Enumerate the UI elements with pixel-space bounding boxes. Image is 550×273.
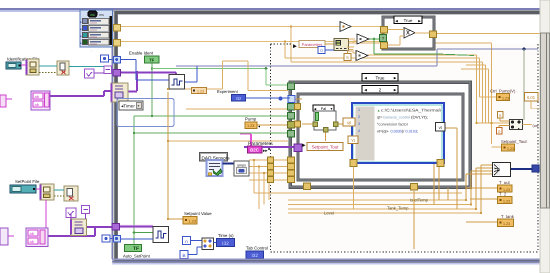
svg-text:1.23: 1.23	[247, 124, 254, 128]
svg-text:1.23: 1.23	[502, 96, 509, 100]
svg-text:SetPoint File: SetPoint File	[15, 179, 40, 184]
svg-text:TF: TF	[133, 246, 139, 252]
svg-text:B: B	[182, 253, 185, 258]
svg-text:▲: ▲	[377, 109, 380, 113]
svg-text:T_out: T_out	[499, 180, 511, 185]
svg-text:ms: ms	[90, 13, 95, 17]
svg-text:◀: ◀	[395, 19, 398, 23]
svg-text:IsletTemp: IsletTemp	[410, 198, 429, 203]
svg-text:Enable Ident: Enable Ident	[129, 51, 154, 56]
svg-text:♡: ♡	[90, 49, 93, 53]
svg-text:▶: ▶	[302, 143, 306, 148]
svg-text:Tank_Temp: Tank_Temp	[387, 206, 409, 211]
svg-text:1.23: 1.23	[503, 199, 510, 203]
svg-text:Fal: Fal	[321, 107, 326, 111]
svg-text:(DVt,Yt);: (DVt,Yt);	[411, 116, 428, 120]
svg-text:T_tank: T_tank	[501, 214, 515, 219]
svg-text:◂Timer: ◂Timer	[121, 104, 135, 109]
svg-text:0.3103: 0.3103	[406, 130, 418, 134]
svg-text:amps: amps	[237, 163, 246, 167]
svg-text:Setpoint Value: Setpoint Value	[184, 211, 212, 216]
svg-text:I32: I32	[222, 241, 229, 247]
svg-text:ab: ab	[35, 102, 40, 107]
svg-text:▶: ▶	[293, 44, 297, 50]
svg-text:ms: ms	[99, 13, 104, 17]
svg-text:B2C: B2C	[250, 148, 260, 153]
svg-text:Setpoint_Tout: Setpoint_Tout	[312, 145, 340, 150]
svg-text:4: 4	[358, 129, 360, 133]
svg-text:0,01: 0,01	[527, 95, 536, 100]
svg-text:▶: ▶	[418, 19, 421, 23]
svg-text:1.23: 1.23	[197, 89, 204, 93]
svg-text:Ctrl_Pump(V): Ctrl_Pump(V)	[490, 89, 516, 94]
svg-text:▶: ▶	[394, 88, 397, 92]
svg-text:▾: ▾	[138, 104, 140, 108]
svg-text:*conversion factor: *conversion factor	[377, 123, 409, 127]
svg-text:1.23: 1.23	[189, 220, 196, 224]
svg-text:▸: ▸	[518, 127, 520, 131]
svg-text:True: True	[404, 18, 413, 23]
svg-text:Auto_SetPoint: Auto_SetPoint	[123, 253, 151, 258]
svg-text:1.23: 1.23	[503, 222, 510, 226]
svg-text:Level: Level	[324, 211, 334, 216]
svg-text:True: True	[375, 75, 385, 80]
svg-text:Experiment: Experiment	[217, 89, 239, 94]
svg-text:ab: ab	[30, 231, 35, 236]
svg-text:vt=(qt+: vt=(qt+	[377, 130, 390, 134]
svg-text:ab: ab	[35, 94, 40, 99]
svg-text:Tab Control: Tab Control	[246, 246, 268, 251]
svg-text:I32: I32	[252, 253, 259, 258]
svg-text:1.23: 1.23	[507, 147, 514, 151]
svg-text:◂: ◂	[258, 124, 260, 129]
svg-text:2: 2	[358, 115, 360, 119]
svg-text:(un: (un	[533, 124, 539, 128]
svg-text:ab: ab	[30, 239, 35, 244]
svg-text:▸▸: ▸▸	[263, 148, 268, 153]
svg-text:1: 1	[358, 108, 360, 112]
svg-text:0.0035: 0.0035	[391, 130, 403, 134]
svg-text:Setpoint_Tout: Setpoint_Tout	[501, 139, 527, 144]
svg-text:I32: I32	[236, 96, 242, 101]
svg-text:n: n	[185, 239, 188, 244]
svg-text:c:\C:\Users\\ESA_Thermal\: c:\C:\Users\\ESA_Thermal\	[381, 108, 442, 113]
svg-text:Time (s): Time (s)	[218, 233, 234, 238]
svg-text:◀: ◀	[364, 76, 367, 80]
svg-text:General_control: General_control	[383, 116, 410, 120]
svg-text:3: 3	[358, 122, 360, 126]
svg-text:▶: ▶	[394, 76, 397, 80]
svg-text:;: ;	[417, 130, 418, 134]
svg-text:TF: TF	[149, 58, 155, 63]
svg-text:◀: ◀	[364, 88, 367, 92]
svg-text:Pump: Pump	[245, 117, 257, 122]
svg-text:T_2: T_2	[499, 192, 507, 197]
